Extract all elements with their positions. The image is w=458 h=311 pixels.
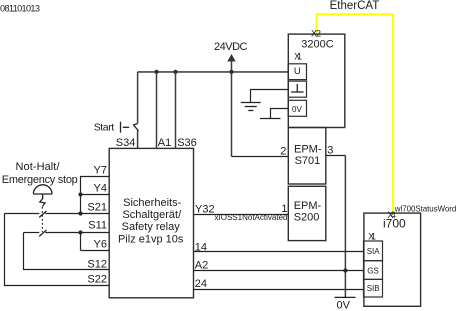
terminal SIB — [364, 279, 383, 297]
node junction S21 — [78, 211, 82, 215]
relay K1 Pilz safety relay — [109, 148, 193, 297]
terminal GS — [364, 261, 383, 280]
svg-text:A1: A1 — [158, 137, 171, 149]
switch emergency stop contact 2 — [39, 230, 46, 236]
wire S11 contact left side — [24, 232, 40, 234]
wire S12 — [24, 233, 110, 270]
svg-text:X1: X1 — [294, 51, 302, 61]
node junction rail/S36 — [173, 70, 177, 74]
wire 14 to SIA — [194, 251, 364, 253]
switch emergency stop contact 1 — [39, 211, 46, 217]
switch start button S1 — [121, 72, 139, 148]
wire A2 to GS — [194, 270, 364, 272]
node junction S11 — [78, 230, 82, 234]
node junction Y4 — [78, 192, 82, 196]
wire Y6 — [81, 250, 110, 252]
svg-text:SIB: SIB — [367, 284, 380, 293]
svg-text:Pilz e1vp 10s: Pilz e1vp 10s — [118, 234, 184, 246]
svg-text:3: 3 — [327, 144, 333, 156]
svg-text:24VDC: 24VDC — [214, 41, 248, 53]
svg-text:Sicherheits-: Sicherheits- — [123, 197, 181, 209]
wire S11 — [45, 232, 109, 234]
svg-text:S36: S36 — [177, 137, 197, 149]
wire Y4 — [81, 194, 110, 196]
svg-text:U: U — [294, 66, 301, 77]
wire elbow to pin 2 — [232, 156, 289, 158]
power 24VDC arrow symbol — [227, 54, 235, 62]
svg-text:Y32: Y32 — [195, 203, 215, 215]
svg-text:EtherCAT: EtherCAT — [330, 0, 380, 12]
svg-text:Start: Start — [94, 122, 115, 134]
svg-text:0V: 0V — [292, 105, 302, 114]
terminal PE earth — [288, 81, 306, 97]
svg-text:EPM-: EPM- — [294, 144, 322, 156]
wire S21 contact left side — [5, 213, 40, 215]
svg-text:GS: GS — [367, 266, 379, 275]
svg-text:Y6: Y6 — [94, 239, 107, 251]
svg-text:S11: S11 — [88, 220, 107, 232]
svg-text:Not-Halt/: Not-Halt/ — [16, 161, 61, 173]
emergency stop actuator dashed link — [41, 207, 43, 232]
svg-text:Emergency stop: Emergency stop — [2, 174, 78, 186]
svg-text:S200: S200 — [294, 211, 320, 223]
wire 24VDC supply rail horizontal — [138, 71, 289, 73]
wire 0V terminal to 0V bar — [271, 109, 289, 119]
wire Y7 — [81, 177, 110, 195]
svg-text:3200C: 3200C — [301, 39, 333, 51]
wire 24 to SIB — [194, 289, 364, 291]
wire link S11 to Y6 — [80, 233, 82, 251]
svg-text:S34: S34 — [116, 137, 136, 149]
wire PE terminal to earth symbol — [251, 90, 289, 103]
wire link Y4 to S21 — [80, 195, 82, 214]
wire EtherCAT yellow bus from X2 to X4 — [316, 14, 392, 213]
svg-text:081101013: 081101013 — [0, 4, 40, 14]
svg-text:wl700StatusWord: wl700StatusWord — [394, 204, 457, 213]
svg-text:0V: 0V — [337, 300, 351, 311]
node junction rail/A1 — [154, 70, 158, 74]
svg-text:S21: S21 — [87, 202, 107, 214]
wire EPM-S701 pin 3 — [326, 155, 346, 157]
svg-text:S701: S701 — [295, 155, 321, 167]
ground 0V bar symbol — [260, 118, 281, 120]
wire 24VDC vertical down to EPM-S701 pin 2 — [231, 61, 233, 157]
node junction rail/24VDC — [229, 70, 233, 74]
svg-text:A2: A2 — [195, 260, 208, 272]
controller U1 3200C — [288, 34, 345, 127]
module U3 EPM-S200 — [288, 186, 326, 240]
svg-text:Safety relay: Safety relay — [122, 221, 181, 233]
wire S21 — [45, 213, 109, 215]
terminal 0V — [288, 100, 306, 116]
emergency stop mushroom head — [33, 185, 52, 207]
svg-text:EPM-: EPM- — [294, 200, 322, 212]
wire S36 vertical — [175, 72, 177, 148]
svg-text:Schaltgerät/: Schaltgerät/ — [122, 209, 182, 221]
wire S22 — [5, 214, 110, 286]
svg-text:2: 2 — [280, 145, 286, 157]
drive U4 i700 — [364, 213, 421, 306]
module U2 EPM-S701 — [288, 128, 326, 185]
wire Y32 to EPM-S200 pin 1 — [194, 214, 289, 216]
wire 0V vertical — [344, 156, 346, 298]
terminal SIA — [364, 241, 383, 261]
svg-text:Y7: Y7 — [94, 165, 107, 177]
ground earth symbol — [241, 103, 261, 111]
svg-text:Y4: Y4 — [94, 183, 107, 195]
svg-text:xIOSS1NotActivated: xIOSS1NotActivated — [215, 213, 288, 222]
terminal U — [288, 64, 306, 80]
svg-text:SIA: SIA — [367, 247, 381, 256]
node junction A2/0V — [343, 268, 347, 272]
svg-text:24: 24 — [195, 278, 207, 290]
svg-text:X1: X1 — [368, 231, 376, 241]
wire A1 vertical — [156, 72, 158, 148]
svg-text:S12: S12 — [87, 258, 107, 270]
ground 0V bottom symbol — [335, 297, 356, 311]
svg-text:X2: X2 — [311, 29, 321, 39]
svg-text:S22: S22 — [87, 274, 107, 286]
